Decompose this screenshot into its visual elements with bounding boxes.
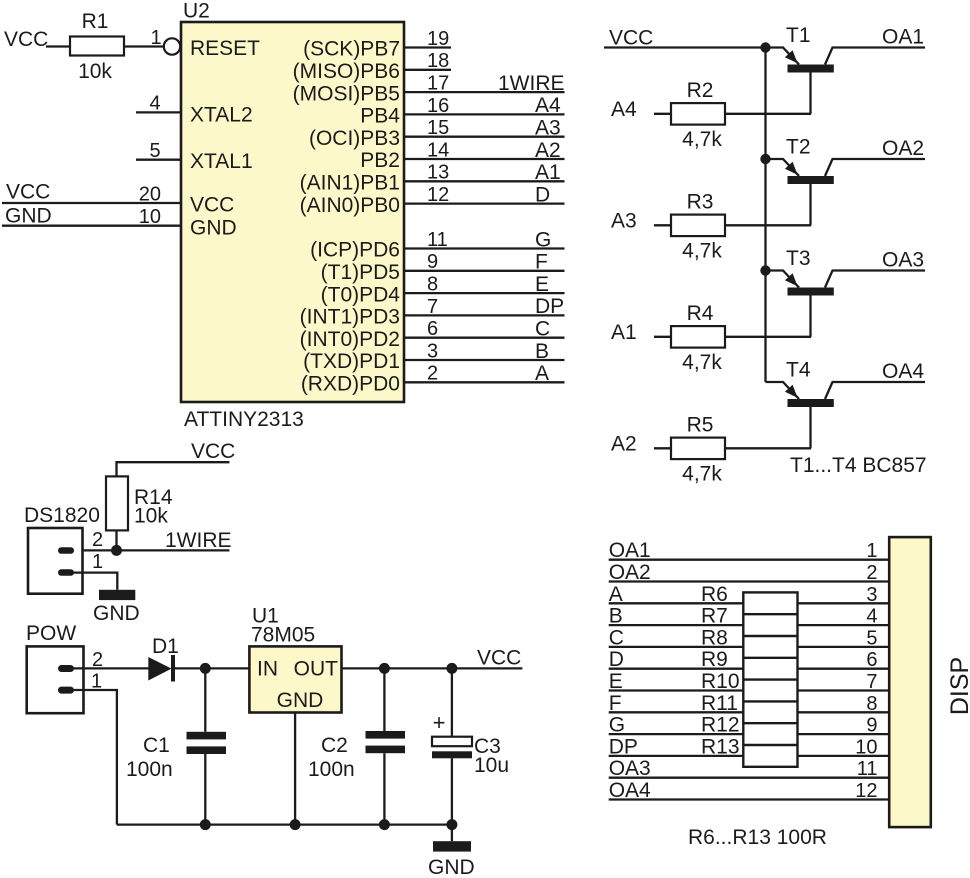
connector POW body (27, 646, 84, 713)
svg-text:OA4: OA4 (882, 360, 924, 383)
svg-text:C2: C2 (321, 734, 348, 757)
wire POW pin2 to D1 (66, 667, 149, 669)
svg-text:3: 3 (866, 584, 877, 606)
svg-text:4: 4 (149, 93, 160, 115)
svg-text:DS1820: DS1820 (24, 504, 100, 527)
svg-text:1WIRE: 1WIRE (498, 72, 565, 95)
svg-text:D: D (535, 183, 550, 206)
svg-text:F: F (535, 251, 548, 274)
svg-text:(AIN0)PB0: (AIN0)PB0 (300, 194, 400, 217)
POW pin 1 contact (58, 687, 74, 694)
svg-text:10: 10 (139, 206, 161, 228)
svg-text:100n: 100n (308, 758, 355, 781)
wire DISP pin 6 (609, 668, 744, 670)
wire DISP pin 8 (609, 711, 744, 713)
svg-text:6: 6 (866, 649, 877, 671)
svg-text:(TXD)PD1: (TXD)PD1 (303, 350, 400, 373)
connector DS1820 body (28, 528, 83, 594)
svg-text:XTAL2: XTAL2 (190, 104, 253, 127)
transistor T3 (BC857 PNP) (766, 247, 926, 337)
svg-text:4,7k: 4,7k (682, 351, 722, 374)
wire A3 to R3 (654, 224, 671, 226)
svg-text:19: 19 (427, 28, 449, 50)
svg-text:DP: DP (535, 295, 564, 318)
svg-text:RESET: RESET (190, 37, 260, 60)
junction rail/U1 GND (290, 819, 301, 830)
svg-text:(ICP)PD6: (ICP)PD6 (310, 239, 400, 262)
POW pin 2 contact (58, 665, 74, 672)
wire U2 pin 20 VCC (2, 202, 181, 204)
wire U2 pin 18 (404, 69, 451, 71)
svg-text:VCC: VCC (609, 27, 653, 50)
svg-text:R6...R13 100R: R6...R13 100R (688, 826, 827, 849)
wire U1 GND pin (294, 713, 296, 825)
junction OUT/C3 (446, 663, 457, 674)
svg-text:7: 7 (427, 296, 438, 318)
svg-text:R13: R13 (701, 735, 740, 758)
ground rail wire (117, 823, 452, 825)
svg-text:A3: A3 (611, 210, 637, 233)
svg-text:R5: R5 (687, 414, 714, 437)
svg-text:15: 15 (427, 117, 449, 139)
wire U2 pin 19 (404, 46, 451, 48)
svg-text:17: 17 (427, 73, 449, 95)
svg-text:(SCK)PB7: (SCK)PB7 (303, 38, 400, 61)
wire DISP pin 4 (609, 624, 744, 626)
svg-text:B: B (535, 340, 549, 363)
svg-text:GND: GND (93, 602, 140, 625)
svg-text:5: 5 (866, 627, 877, 649)
ground symbol (DS1820) (99, 590, 135, 600)
svg-text:OUT: OUT (294, 658, 339, 681)
wire VCC to R1 (46, 45, 70, 47)
svg-text:(INT0)PD2: (INT0)PD2 (300, 328, 400, 351)
svg-text:DISP: DISP (946, 657, 970, 715)
svg-text:5: 5 (149, 140, 160, 162)
svg-text:R4: R4 (687, 302, 714, 325)
junction on VCC rail (T3 emitter) (760, 265, 770, 275)
svg-text:T2: T2 (786, 136, 811, 159)
svg-text:2: 2 (427, 363, 438, 385)
wire U1 OUT to VCC (342, 667, 523, 669)
wire U2 pin 7 (404, 314, 565, 316)
svg-text:78M05: 78M05 (251, 624, 315, 647)
junction on VCC rail (T2 emitter) (760, 154, 770, 164)
svg-text:4,7k: 4,7k (682, 239, 722, 262)
resistor divider line 5 (743, 700, 797, 702)
svg-text:16: 16 (427, 95, 449, 117)
svg-text:D1: D1 (152, 635, 179, 658)
svg-text:VCC: VCC (4, 28, 48, 51)
resistor divider line 7 (743, 744, 797, 746)
wire U2 pin 10 GND (2, 225, 181, 227)
svg-text:R12: R12 (701, 714, 740, 737)
resistor network R6...R13 body (743, 592, 797, 766)
svg-text:VCC: VCC (190, 194, 234, 217)
svg-text:(INT1)PD3: (INT1)PD3 (300, 306, 400, 329)
wire R3 to T2 base (725, 224, 811, 226)
svg-text:PB2: PB2 (360, 149, 400, 172)
wire rail to ground symbol (451, 825, 453, 842)
wire DISP pin 1 (609, 559, 890, 561)
svg-text:12: 12 (855, 780, 877, 802)
wire VCC to R14 (117, 462, 230, 476)
svg-text:POW: POW (26, 622, 76, 645)
wire A1 to R4 (654, 336, 671, 338)
capacitor C3 (electrolytic) (432, 668, 509, 824)
resistor divider line 6 (743, 722, 797, 724)
resistor R5 (671, 414, 725, 486)
svg-text:R8: R8 (701, 626, 728, 649)
transistor T2 (BC857 PNP) (766, 136, 926, 226)
wire R5 to T4 base (725, 447, 811, 449)
wire U2 pin 9 (404, 270, 565, 272)
junction OUT/C2 (379, 663, 390, 674)
svg-text:11: 11 (427, 229, 448, 251)
wire DISP pin 11 (609, 777, 890, 779)
junction D1/C1 (200, 663, 211, 674)
svg-text:+: + (433, 710, 446, 735)
svg-text:R10: R10 (701, 670, 740, 693)
svg-text:9: 9 (866, 715, 877, 737)
svg-text:6: 6 (427, 318, 438, 340)
wire R1 to RESET bubble (124, 45, 164, 47)
svg-text:OA3: OA3 (882, 249, 924, 272)
ground symbol (power rail) (433, 841, 471, 851)
resistor divider line 2 (743, 635, 797, 637)
svg-text:1: 1 (150, 27, 161, 49)
svg-text:10: 10 (855, 736, 877, 758)
wire R14 to 1WIRE node (115, 531, 117, 551)
wire DISP pin 3 (609, 602, 744, 604)
IC U2 body (181, 22, 404, 402)
svg-text:T1: T1 (786, 24, 811, 47)
svg-text:R3: R3 (687, 191, 714, 214)
regulator U1 body (249, 646, 341, 712)
wire D1 to U1 IN (175, 667, 249, 669)
resistor divider line 1 (743, 613, 797, 615)
wire DISP pin 9 (609, 733, 744, 735)
svg-text:G: G (535, 228, 551, 251)
wire DISP pin 7 (609, 689, 744, 691)
wire VCC rail horizontal (604, 46, 766, 48)
svg-text:VCC: VCC (191, 440, 235, 463)
svg-text:GND: GND (277, 689, 324, 712)
svg-text:2: 2 (92, 529, 103, 551)
svg-text:14: 14 (427, 139, 449, 161)
svg-text:XTAL1: XTAL1 (190, 150, 253, 173)
resistor divider line 3 (743, 657, 797, 659)
svg-text:R11: R11 (701, 692, 738, 715)
svg-text:OA1: OA1 (882, 26, 924, 49)
wire A2 to R5 (654, 447, 671, 449)
svg-text:100n: 100n (126, 758, 173, 781)
DS1820 pin 2 contact (58, 547, 74, 554)
svg-text:(T0)PD4: (T0)PD4 (321, 283, 401, 306)
transistor T1 (BC857 PNP) (766, 24, 926, 114)
wire U2 pin 11 (404, 247, 565, 249)
svg-text:7: 7 (866, 671, 877, 693)
wire U2 pin 2 (404, 381, 565, 383)
svg-text:(MOSI)PB5: (MOSI)PB5 (293, 82, 400, 105)
resistor R4 (671, 302, 725, 374)
wire DISP pin 12 (609, 798, 890, 800)
svg-text:9: 9 (427, 251, 438, 273)
capacitor C2 (308, 668, 405, 824)
svg-text:PB4: PB4 (360, 105, 400, 128)
svg-text:(AIN1)PB1: (AIN1)PB1 (300, 172, 400, 195)
svg-text:A: A (535, 362, 549, 385)
junction rail/C3 (446, 819, 457, 830)
svg-text:4,7k: 4,7k (682, 462, 722, 485)
svg-text:10k: 10k (134, 505, 168, 528)
svg-text:R9: R9 (701, 648, 728, 671)
junction rail/C2 (379, 819, 390, 830)
svg-text:(OCI)PB3: (OCI)PB3 (309, 127, 400, 150)
svg-text:GND: GND (190, 217, 237, 240)
svg-text:8: 8 (427, 274, 438, 296)
svg-text:A1: A1 (611, 321, 637, 344)
svg-text:11: 11 (857, 758, 878, 780)
svg-text:2: 2 (866, 562, 877, 584)
svg-text:(T1)PD5: (T1)PD5 (321, 261, 400, 284)
wire U2 pin 16 (404, 113, 565, 115)
svg-text:VCC: VCC (477, 647, 521, 670)
svg-text:VCC: VCC (6, 181, 50, 204)
resistor R1 (70, 10, 124, 83)
svg-text:ATTINY2313: ATTINY2313 (184, 408, 304, 431)
svg-text:T3: T3 (786, 247, 811, 270)
junction rail/C1 (200, 819, 211, 830)
svg-text:A4: A4 (611, 98, 637, 121)
svg-text:A4: A4 (535, 94, 561, 117)
wire U2 pin 6 (404, 337, 565, 339)
svg-text:R2: R2 (687, 79, 714, 102)
svg-text:4,7k: 4,7k (682, 128, 722, 151)
wire DISP pin 5 (609, 646, 744, 648)
svg-text:GND: GND (5, 205, 52, 228)
junction on VCC rail (T1 emitter) (760, 42, 770, 52)
svg-text:R7: R7 (701, 605, 728, 628)
svg-text:4: 4 (866, 606, 877, 628)
wire U2 pin 13 (404, 180, 565, 182)
transistor T4 (BC857 PNP) (766, 359, 926, 449)
svg-text:3: 3 (427, 340, 438, 362)
wire 1WIRE (66, 549, 229, 551)
wire A4 to R2 (654, 113, 671, 115)
svg-text:1: 1 (866, 540, 877, 562)
wire DS1820 pin1 to GND (66, 573, 117, 590)
svg-text:A2: A2 (611, 433, 637, 456)
svg-text:1: 1 (92, 551, 103, 573)
wire U2 pin 14 (404, 158, 565, 160)
resistor divider line 4 (743, 678, 797, 680)
svg-text:(RXD)PD0: (RXD)PD0 (301, 373, 400, 396)
svg-text:C: C (535, 318, 550, 341)
DS1820 pin 1 contact (58, 569, 74, 576)
wire POW pin1 to ground rail (66, 690, 117, 825)
resistor R14 (106, 476, 173, 530)
wire U2 pin 12 (404, 202, 565, 204)
connector DISP body (889, 537, 931, 827)
svg-text:E: E (535, 273, 549, 296)
svg-text:A2: A2 (535, 139, 561, 162)
svg-text:A3: A3 (535, 117, 561, 140)
svg-text:(MISO)PB6: (MISO)PB6 (293, 60, 400, 83)
wire VCC rail vertical (764, 47, 766, 383)
wire DISP pin 10 (609, 755, 744, 757)
diode D1 (148, 655, 175, 682)
wire DISP pin 2 (609, 580, 890, 582)
wire U2 pin 4 (XTAL2) (136, 111, 181, 113)
svg-text:T4: T4 (786, 359, 811, 382)
wire U2 pin 3 (404, 359, 565, 361)
svg-text:A1: A1 (535, 161, 561, 184)
svg-text:T1...T4 BC857: T1...T4 BC857 (790, 454, 927, 477)
svg-text:R6: R6 (701, 583, 728, 606)
svg-text:20: 20 (139, 184, 161, 206)
RESET inversion bubble (164, 38, 180, 54)
wire U2 pin 8 (404, 292, 565, 294)
svg-text:OA2: OA2 (882, 137, 924, 160)
wire U2 pin 5 (XTAL1) (136, 159, 181, 161)
wire R2 to T1 base (725, 113, 811, 115)
junction 1WIRE/R14/DS1820 (111, 545, 122, 556)
svg-text:GND: GND (428, 856, 475, 878)
svg-text:R1: R1 (82, 10, 109, 33)
svg-text:18: 18 (427, 50, 449, 72)
svg-text:10k: 10k (78, 60, 112, 83)
capacitor C1 (126, 668, 226, 824)
svg-text:12: 12 (427, 184, 449, 206)
svg-text:U2: U2 (183, 0, 210, 23)
wire R4 to T3 base (725, 336, 811, 338)
wire U2 pin 17 (404, 91, 565, 93)
svg-text:C1: C1 (143, 734, 170, 757)
svg-text:8: 8 (866, 693, 877, 715)
svg-text:IN: IN (257, 658, 278, 681)
svg-text:1WIRE: 1WIRE (165, 529, 232, 552)
svg-text:13: 13 (427, 162, 449, 184)
resistor R3 (671, 191, 725, 263)
wire U2 pin 15 (404, 136, 565, 138)
svg-text:10u: 10u (474, 754, 509, 777)
resistor R2 (671, 79, 725, 151)
